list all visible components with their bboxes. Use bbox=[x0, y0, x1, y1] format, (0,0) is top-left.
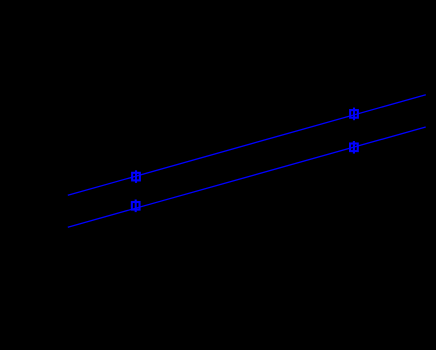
marker M3 lower-left bbox=[132, 200, 140, 213]
wire: data line series 2 (lower) bbox=[68, 127, 426, 227]
marker M1 upper-left bbox=[132, 170, 140, 183]
wire: data line series 1 (upper) bbox=[68, 95, 426, 196]
marker M2 upper-right bbox=[350, 108, 358, 121]
marker M4 lower-right bbox=[350, 141, 358, 154]
